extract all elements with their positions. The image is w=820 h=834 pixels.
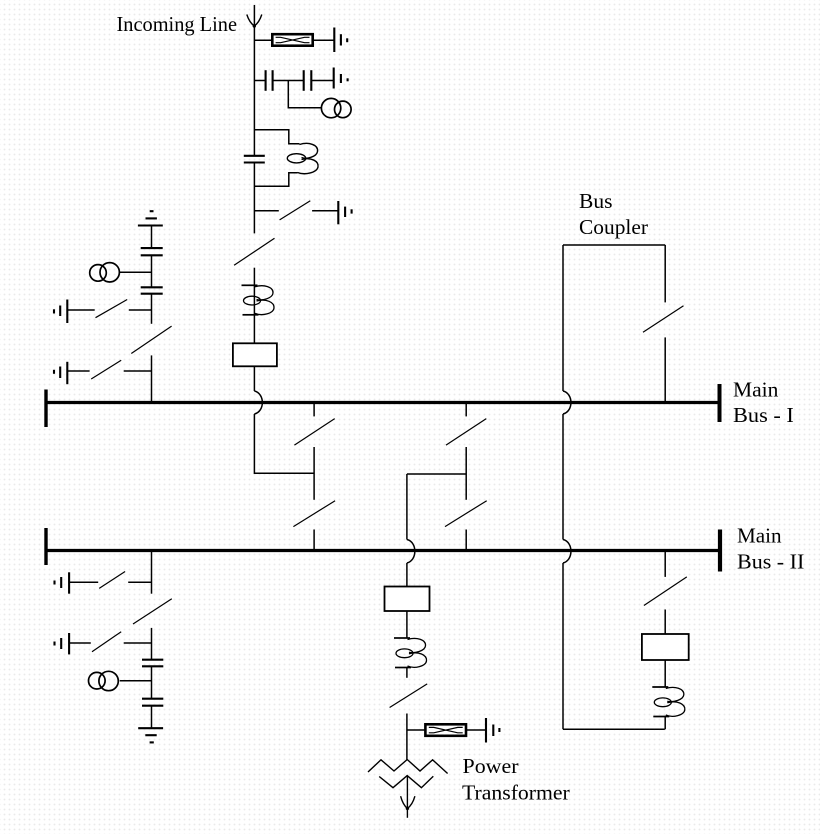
wire hop over Main Bus II (transformer feeder) (407, 540, 415, 564)
svg-text:Main: Main (733, 377, 779, 401)
wire isolator to breaker (664, 610, 666, 635)
wire incoming line vertical (top) (253, 5, 255, 156)
switch VT2 ES b blade (92, 632, 121, 652)
wire breaker to CT (664, 660, 666, 687)
wire bus coupler chain from Main Bus II (664, 552, 666, 577)
capacitor CVT C1 (266, 70, 273, 91)
wire breaker to CT (406, 611, 408, 638)
wire selector S2 lower (465, 530, 467, 550)
surge arrester LA1 (272, 34, 312, 46)
ground (bottom of bus VT II) (138, 728, 163, 742)
CT current transformer (transformer feeder) (394, 638, 427, 668)
wire VT2 ES b to line (124, 642, 152, 644)
switch S1b blade (to Bus II) (293, 501, 335, 527)
svg-text:Bus - I: Bus - I (733, 403, 794, 427)
wire bus coupler top loop (563, 244, 665, 246)
wire hop to breaker (406, 563, 408, 587)
inductor wave trap coil (287, 143, 318, 173)
wire VT2 ES b ground side (69, 642, 91, 644)
wire bus coupler left vertical (lower) (562, 563, 564, 729)
arrow incoming direction (247, 15, 262, 28)
switch bus coupler isolator blade (upper) (643, 306, 684, 333)
switch VT1 ES b blade (91, 360, 121, 379)
wire transformer feeder junction horizontal (407, 473, 466, 475)
svg-text:Power: Power (463, 754, 519, 778)
svg-text:Coupler: Coupler (579, 215, 648, 239)
svg-text:Transformer: Transformer (462, 780, 570, 804)
wire VT2 between caps (151, 666, 153, 698)
wire VT1 upper (151, 226, 153, 249)
transformer CVT PT (two circles) (321, 98, 351, 117)
wire to CVT (254, 80, 265, 82)
switch line isolator blade (234, 238, 274, 265)
ground (top of bus VT I) (138, 211, 163, 225)
switch ES1 blade (280, 201, 311, 220)
wire VT2 from Main Bus II (151, 552, 153, 594)
wire arrester LA2 to ground (466, 729, 486, 731)
capacitor VT1 C2 (141, 287, 163, 293)
wire selector S1 stub from Main Bus I (313, 404, 315, 416)
switch S1a blade (to Bus I) (294, 419, 334, 446)
svg-text:Bus - II: Bus - II (737, 550, 804, 574)
svg-text:Main: Main (737, 523, 782, 547)
wire ES1 to ground (312, 210, 338, 212)
wire bus coupler left vertical (middle) (562, 414, 564, 540)
ground (right of LA2) (486, 718, 499, 743)
wire to surge arrester LA1 (254, 39, 272, 41)
arrow power transformer output (401, 776, 415, 818)
wire incoming line (wave trap to earth switch) (253, 162, 255, 233)
wire CVT tap down (288, 81, 321, 108)
wire hop over Main Bus II (bus coupler) (563, 540, 571, 564)
ground (right of CVT) (334, 68, 348, 89)
wire VT1 below isolator (151, 355, 153, 404)
surge arrester LA2 (425, 724, 466, 736)
wire VT2 ES a to line (128, 581, 151, 583)
bus Main Bus I (46, 384, 722, 427)
transformer VT2 PT (two circles) (89, 671, 119, 690)
switch S2a blade (to Bus I) (446, 419, 486, 446)
transformer VT1 PT (two circles) (90, 263, 120, 282)
capacitor CVT C2 (304, 70, 312, 91)
wire line earth switch branch (254, 210, 278, 212)
wire incoming feeder below bus to junction (254, 414, 314, 473)
breaker CB2 (transformer feeder) (385, 587, 430, 612)
ground (right of LA1) (334, 28, 347, 53)
breaker CB1 (incoming line) (233, 343, 277, 366)
wire CT to isolator (406, 668, 408, 678)
svg-text:Incoming Line: Incoming Line (117, 12, 238, 36)
wire VT2 to ground (151, 706, 153, 729)
wire hop over Main Bus I (bus coupler) (563, 391, 571, 414)
wire VT1 between caps (151, 255, 153, 287)
switch transformer isolator blade (390, 684, 428, 708)
wire bus coupler bottom horizontal (563, 728, 665, 730)
CT current transformer (bus coupler) (652, 687, 685, 717)
wire between CVT capacitors (273, 80, 304, 82)
power transformer T1 winding (lower zigzag) (379, 776, 433, 788)
wire VT1 ES a ground side (67, 309, 94, 311)
switch VT2 isolator blade (133, 599, 172, 624)
wire VT1 ES b to line (124, 370, 152, 372)
wire bus coupler left vertical (upper) (562, 245, 564, 391)
breaker CB3 (bus coupler) (642, 634, 689, 660)
wire selector S1 lower (313, 530, 315, 550)
wire VT2 PT tap (120, 680, 152, 682)
wire VT2 below isolator (151, 628, 153, 660)
ground (left of VT2 ES b) (55, 633, 70, 654)
wire CT to bottom horizontal (664, 717, 666, 730)
power transformer T1 winding (upper zigzag) (368, 760, 448, 774)
wire VT1 ES a to line (129, 309, 152, 311)
ground (left of VT1 ES b) (54, 362, 67, 384)
wire wave-trap parallel branch (bottom) (254, 173, 297, 187)
wire selector S1 middle (313, 447, 315, 500)
ground (left of VT2 ES a) (55, 572, 70, 593)
wire arrester to ground (313, 39, 335, 41)
wire VT2 ES a ground side (69, 581, 98, 583)
wire breaker to Main Bus I (253, 366, 255, 391)
switch S2b blade (to Bus II) (445, 501, 487, 527)
bus Main Bus II (46, 528, 723, 572)
wire to surge arrester LA2 (407, 729, 425, 731)
wire hop over Main Bus I (incoming feeder) (254, 391, 262, 414)
ground (left of VT1 ES a) (54, 300, 67, 324)
wire isolator to arrester junction (406, 714, 408, 760)
svg-text:Bus: Bus (579, 189, 612, 213)
wire CVT to ground (311, 80, 333, 82)
wire VT1 PT tap (119, 271, 151, 273)
wire VT1 ES b ground side (67, 370, 89, 372)
capacitor VT2 C1 (142, 660, 163, 667)
capacitor VT1 C1 (141, 248, 163, 255)
wire bus coupler right vertical (upper) (664, 245, 666, 302)
wire transformer feeder down to hop (406, 474, 408, 540)
wire wave-trap parallel branch (top) (254, 130, 299, 144)
switch bus coupler isolator blade (lower) (644, 577, 687, 606)
switch VT1 isolator blade (131, 326, 171, 353)
wire selector S2 middle (465, 447, 467, 500)
switch VT2 ES a blade (99, 572, 125, 589)
CT current transformer (incoming line) (242, 285, 275, 315)
capacitor wave trap (244, 156, 265, 163)
wire bus coupler right vertical to Main Bus I (664, 337, 666, 401)
switch VT1 ES a blade (96, 300, 128, 318)
wire VT1 lower to gap (151, 294, 153, 324)
capacitor VT2 C2 (142, 699, 163, 706)
wire isolator to CT (253, 268, 255, 344)
ground (right of ES1) (338, 201, 351, 224)
wire selector S2 stub from Main Bus I (465, 404, 467, 416)
